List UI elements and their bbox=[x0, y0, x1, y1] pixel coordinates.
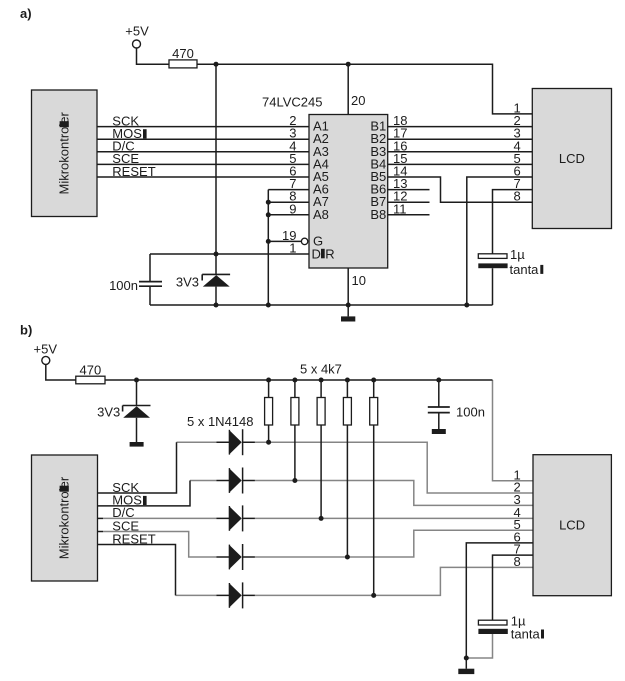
svg-text:+5V: +5V bbox=[125, 24, 149, 39]
svg-text:100n: 100n bbox=[456, 405, 485, 420]
svg-text:B8: B8 bbox=[370, 207, 386, 222]
svg-text:1: 1 bbox=[289, 241, 296, 256]
svg-text:b): b) bbox=[20, 323, 32, 338]
svg-text:8: 8 bbox=[513, 189, 520, 204]
svg-text:8: 8 bbox=[513, 554, 520, 569]
svg-text:1µ: 1µ bbox=[510, 247, 525, 262]
svg-text:470: 470 bbox=[80, 362, 102, 377]
svg-text:470: 470 bbox=[172, 46, 194, 61]
svg-text:tanta: tanta bbox=[510, 262, 540, 277]
svg-text:+5V: +5V bbox=[34, 342, 58, 357]
svg-text:tanta: tanta bbox=[511, 626, 541, 641]
svg-text:3V3: 3V3 bbox=[97, 405, 120, 420]
svg-text:LCD: LCD bbox=[559, 518, 585, 533]
svg-text:D: D bbox=[312, 246, 321, 261]
svg-text:74LVC245: 74LVC245 bbox=[262, 95, 322, 110]
svg-text:9: 9 bbox=[289, 201, 296, 216]
svg-text:a): a) bbox=[20, 6, 32, 21]
svg-text:10: 10 bbox=[352, 273, 366, 288]
svg-text:A8: A8 bbox=[313, 207, 329, 222]
svg-text:R: R bbox=[325, 246, 334, 261]
svg-text:5 x 1N4148: 5 x 1N4148 bbox=[187, 414, 254, 429]
svg-text:RESET: RESET bbox=[112, 531, 155, 546]
svg-text:11: 11 bbox=[393, 201, 407, 216]
svg-text:5 x 4k7: 5 x 4k7 bbox=[300, 361, 342, 376]
svg-text:LCD: LCD bbox=[559, 151, 585, 166]
svg-text:100n: 100n bbox=[109, 278, 138, 293]
svg-text:3V3: 3V3 bbox=[176, 275, 199, 290]
svg-text:20: 20 bbox=[351, 93, 365, 108]
svg-text:RESET: RESET bbox=[112, 164, 155, 179]
